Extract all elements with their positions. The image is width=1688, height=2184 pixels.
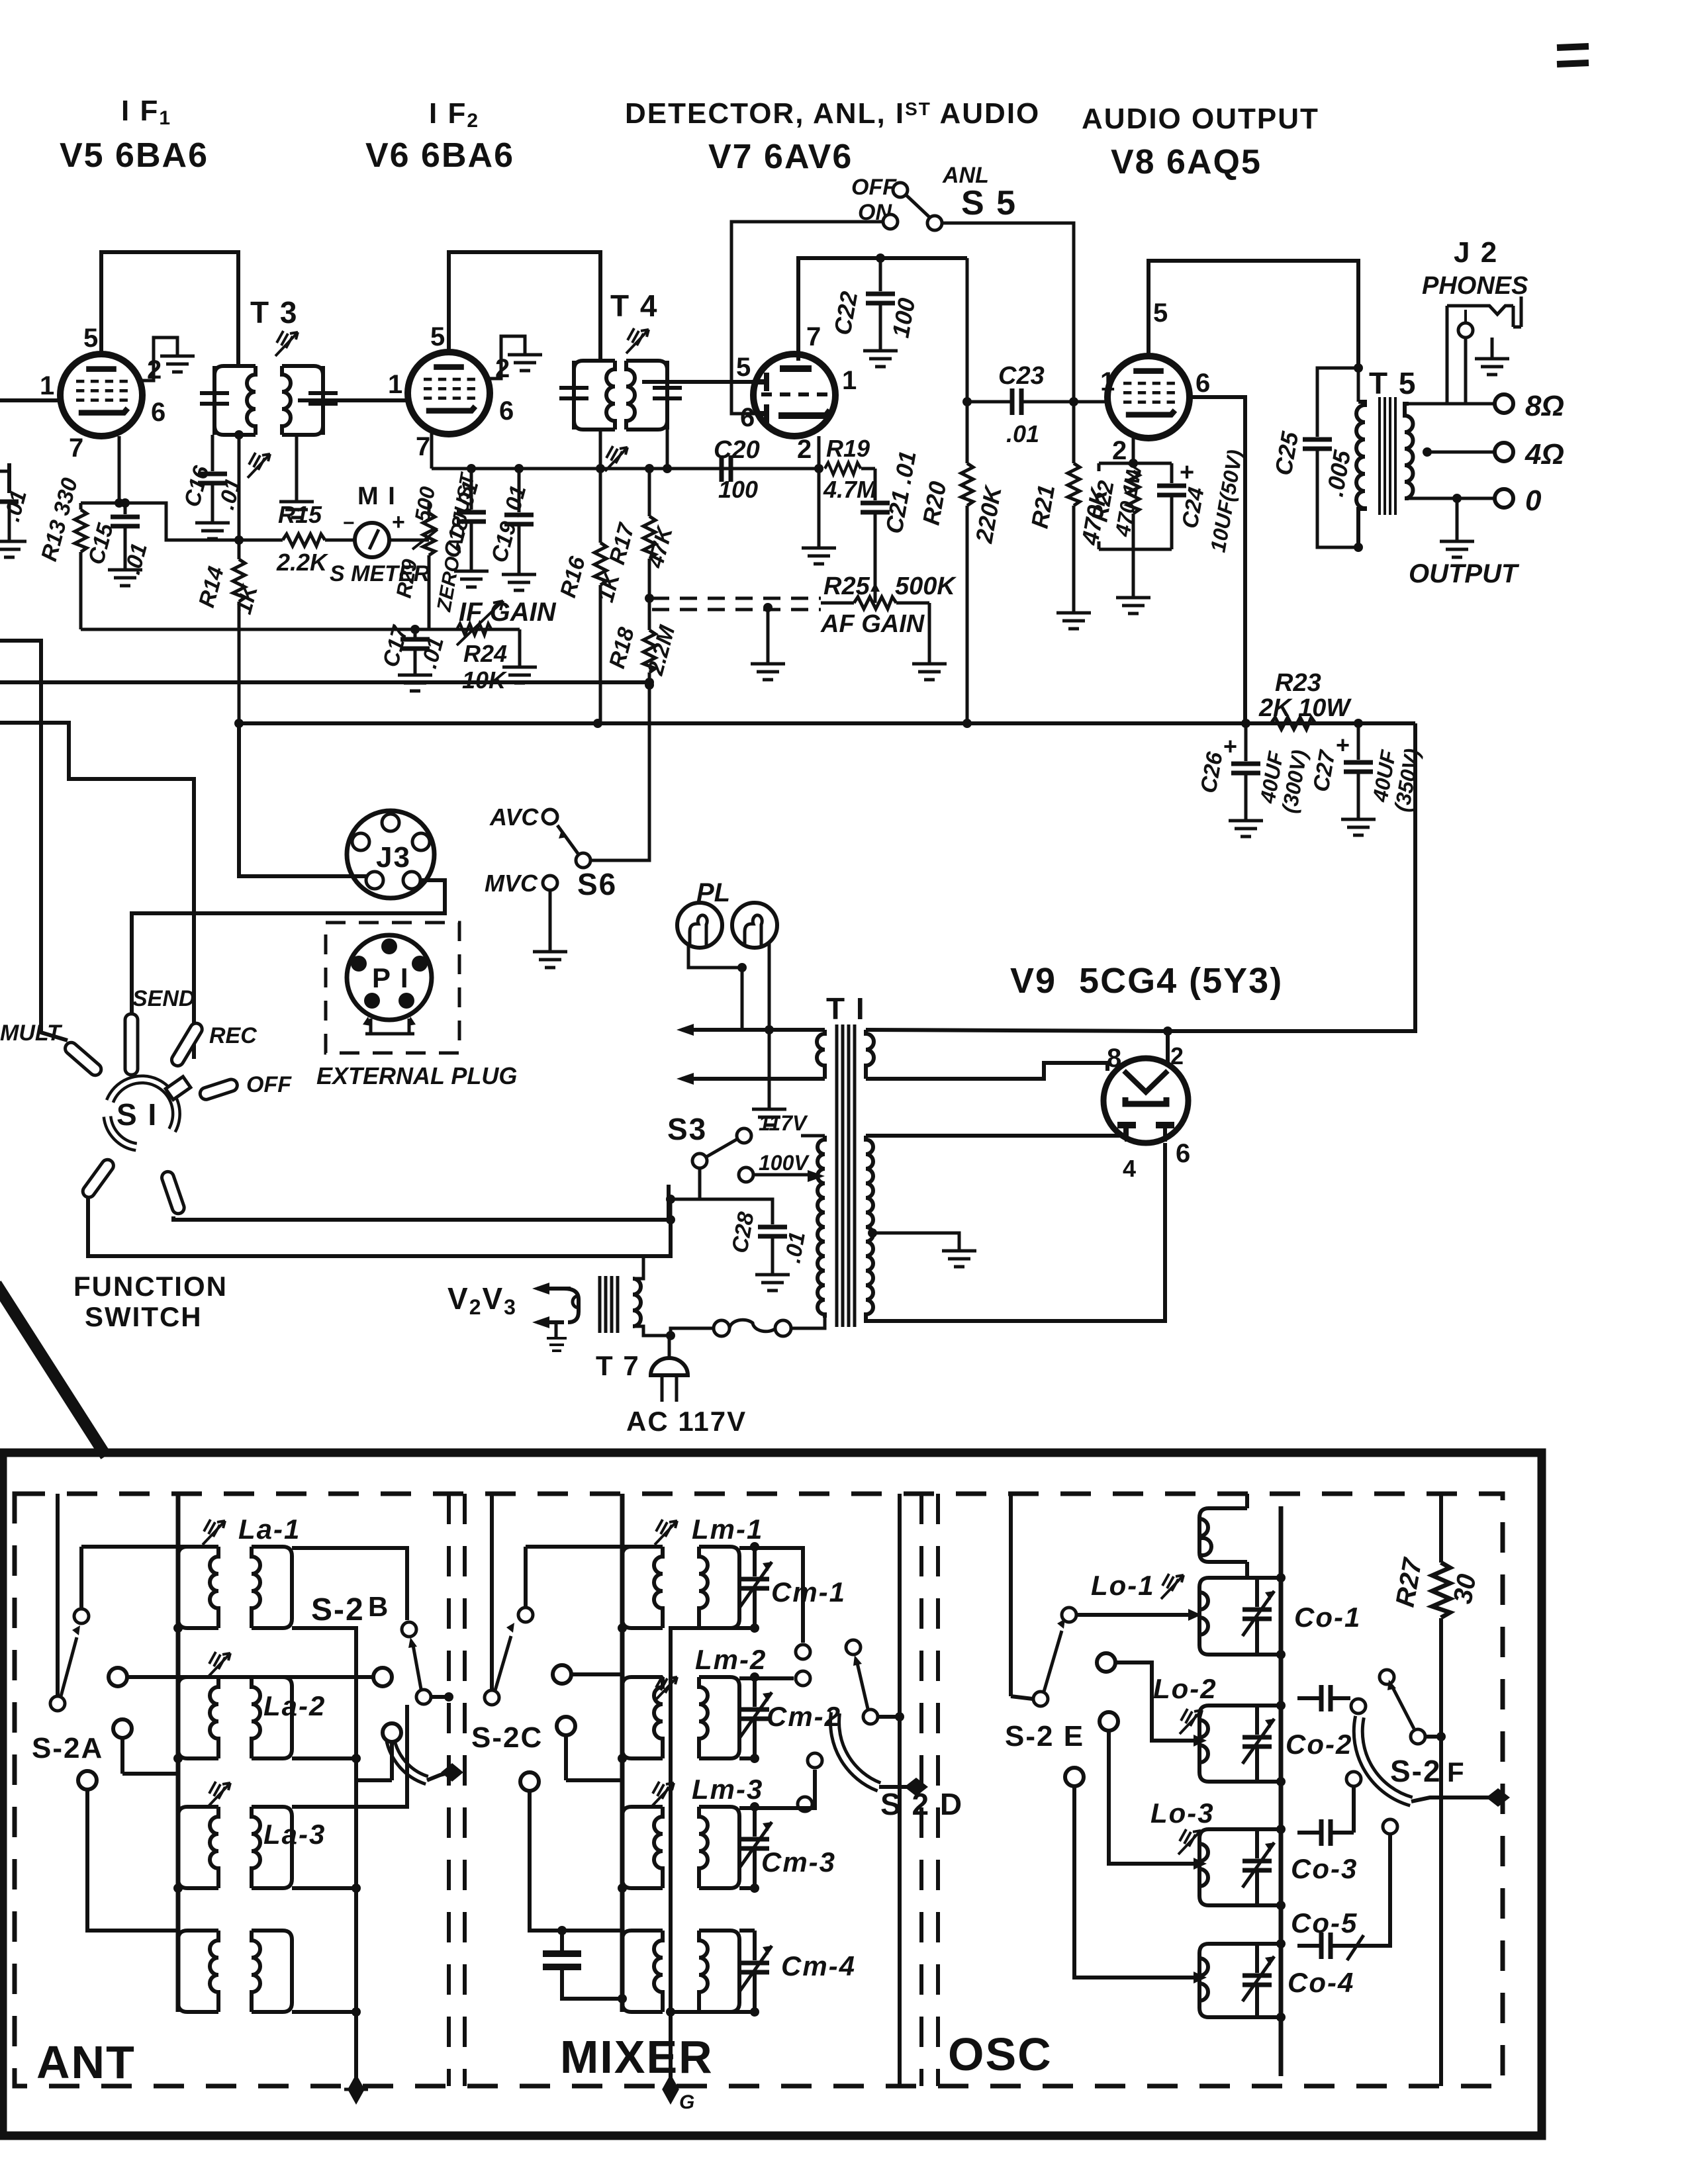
SEND paddle xyxy=(125,1014,138,1075)
svg-text:Co-4: Co-4 xyxy=(1288,1967,1354,1998)
svg-text:T 3: T 3 xyxy=(250,295,298,330)
switch S-2B xyxy=(311,1591,463,1782)
coil Lm-3 xyxy=(566,1770,815,1893)
svg-text:Co-1: Co-1 xyxy=(1294,1602,1361,1633)
wire T4 secondary to V7 pin5 xyxy=(642,380,760,384)
svg-text:S-2C: S-2C xyxy=(471,1721,543,1754)
trimmer Cm-3 xyxy=(739,1802,836,1893)
capacitor C25 .005 xyxy=(1270,363,1363,552)
resistor R15 2.2K xyxy=(239,501,355,576)
svg-text:OSC: OSC xyxy=(948,2028,1053,2080)
svg-text:5: 5 xyxy=(430,322,446,351)
svg-text:.01: .01 xyxy=(780,1230,810,1265)
svg-text:100: 100 xyxy=(718,476,758,503)
svg-text:OUTPUT: OUTPUT xyxy=(1409,559,1520,588)
svg-text:S 5: S 5 xyxy=(961,184,1017,222)
svg-text:+: + xyxy=(1180,459,1196,486)
svg-text:S-2A: S-2A xyxy=(32,1732,103,1764)
coil La-1 xyxy=(81,1514,407,2089)
wire V5 grid from left edge xyxy=(0,398,61,402)
svg-text:Cm-4: Cm-4 xyxy=(781,1950,856,1981)
B+ corner to V9 xyxy=(1168,723,1415,1031)
dashed grid xyxy=(761,392,835,396)
svg-text:2.2K: 2.2K xyxy=(276,549,329,576)
transformer T1 xyxy=(677,991,874,1327)
filament transformer T7 xyxy=(596,1256,675,1381)
svg-text:DETECTOR, ANL, IST AUDIO: DETECTOR, ANL, IST AUDIO xyxy=(625,97,1040,130)
core xyxy=(1380,397,1395,515)
svg-text:1: 1 xyxy=(842,366,858,395)
svg-text:4Ω: 4Ω xyxy=(1524,438,1564,471)
svg-text:6: 6 xyxy=(1196,369,1211,398)
trimmer Cm-2 xyxy=(739,1672,841,1763)
AC plug xyxy=(626,1336,747,1437)
svg-text:MIXER: MIXER xyxy=(560,2031,714,2083)
coil Lm-4 bottom with fixed cap xyxy=(530,1926,755,2012)
T4 xyxy=(559,289,682,471)
svg-text:R19: R19 xyxy=(826,435,870,462)
svg-text:4: 4 xyxy=(1123,1155,1137,1182)
MIXER right bus xyxy=(898,1494,902,2086)
T1 left top winding (6.3V) xyxy=(817,1030,825,1079)
wire V5 pin7 down xyxy=(81,436,239,540)
capacitor inside T4 secondary xyxy=(653,361,682,430)
rectifier tube V9 xyxy=(1103,1042,1192,1182)
wire J3 lower-right to SEND rail xyxy=(132,880,445,1014)
OSC right bus xyxy=(1279,1506,1284,2076)
svg-text:8Ω: 8Ω xyxy=(1525,390,1564,422)
svg-text:C23: C23 xyxy=(998,362,1045,390)
wire S5 pivot to right and down to C23 xyxy=(942,223,1074,402)
svg-text:T 5: T 5 xyxy=(1369,366,1417,400)
resistor R20 220K xyxy=(917,402,1008,723)
svg-text:V6 6BA6: V6 6BA6 xyxy=(365,136,514,175)
svg-text:100V: 100V xyxy=(759,1151,810,1175)
switch S-2C xyxy=(471,1494,543,1754)
trimmer top xyxy=(626,328,649,353)
svg-text:MULT: MULT xyxy=(0,1021,63,1046)
ANT output star xyxy=(344,2077,368,2101)
svg-text:MVC: MVC xyxy=(485,870,538,897)
svg-text:5: 5 xyxy=(83,324,99,353)
svg-text:ANT: ANT xyxy=(36,2036,136,2088)
svg-text:Lm-1: Lm-1 xyxy=(692,1514,763,1545)
T3 primary winding xyxy=(214,366,256,435)
tube V8 6AQ5 xyxy=(1100,298,1211,465)
capacitor C28 .01 xyxy=(700,1199,810,1291)
svg-text:30: 30 xyxy=(1448,1572,1482,1606)
svg-text:Co-3: Co-3 xyxy=(1291,1853,1358,1884)
svg-text:−: − xyxy=(343,512,356,534)
node V9 pin2 junction xyxy=(1163,1026,1172,1036)
wire V6 pin7 down to rail xyxy=(430,433,434,469)
svg-text:117V: 117V xyxy=(759,1111,808,1135)
svg-text:500K: 500K xyxy=(895,572,957,600)
fixed cap row Co-3 coupling xyxy=(1297,1772,1361,1846)
wire T1 HV bottom to V9 pin6 xyxy=(866,1143,1165,1321)
wire V8 plate top xyxy=(1149,261,1358,368)
svg-text:Cm-3: Cm-3 xyxy=(761,1846,836,1878)
resistor R14 1K xyxy=(194,430,263,723)
T3 secondary winding xyxy=(282,366,323,435)
svg-text:6: 6 xyxy=(499,396,515,426)
wire V5 pin2 screen to ground xyxy=(141,338,177,381)
OSC terminals xyxy=(1065,1653,1207,1983)
svg-text:PHONES: PHONES xyxy=(1422,272,1528,300)
svg-text:V5 6BA6: V5 6BA6 xyxy=(60,136,209,175)
output transformer T5 xyxy=(1356,366,1417,547)
svg-text:B: B xyxy=(368,1591,389,1622)
thick diagonal lead-in xyxy=(0,1284,106,1456)
coil La-3 xyxy=(173,1705,407,1893)
bus2 (B+) xyxy=(238,721,1415,725)
svg-text:7: 7 xyxy=(69,433,85,463)
lower-right paddle xyxy=(160,1170,186,1215)
top coupling coil xyxy=(1199,1494,1281,1578)
T5 primary xyxy=(1356,402,1365,547)
inner dashed border xyxy=(15,1494,1503,2086)
svg-text:T 7: T 7 xyxy=(596,1350,640,1381)
svg-text:C20: C20 xyxy=(714,436,760,464)
trimmer bottom xyxy=(605,446,628,471)
coil La-4 bottom xyxy=(178,1931,361,2017)
svg-text:La-3: La-3 xyxy=(263,1819,326,1850)
svg-text:REC: REC xyxy=(209,1023,257,1048)
svg-text:M I: M I xyxy=(357,482,397,510)
coil Lo-2 with Co-2 xyxy=(1153,1673,1352,1786)
dashed separator MIXER/OSC xyxy=(919,1494,923,2086)
coil Lo-1 with Co-1 xyxy=(1091,1570,1361,1659)
svg-text:AVC: AVC xyxy=(489,803,539,831)
capacitor C17 .01 xyxy=(378,622,449,691)
S5 switch ANL xyxy=(851,163,1017,230)
svg-text:SEND: SEND xyxy=(132,986,195,1011)
wire S1 lower-right paddle to S3 xyxy=(173,1185,669,1220)
svg-text:Lo-2: Lo-2 xyxy=(1153,1673,1217,1704)
capacitor C15 .01 xyxy=(83,498,152,577)
capacitor C20 100 xyxy=(714,436,760,503)
wire S1 lower-left paddle rail xyxy=(88,1196,671,1256)
wire T3 secondary bottom to ground xyxy=(295,435,299,490)
meter M1 S METER xyxy=(330,482,430,586)
dashed separator ANT/MIXER xyxy=(447,1494,451,2086)
trimmer Cm-4 xyxy=(666,1931,856,2017)
svg-text:S I: S I xyxy=(117,1097,158,1132)
svg-text:.01: .01 xyxy=(1006,420,1039,447)
wire T3 secondary to V6 grid xyxy=(298,398,408,402)
MIXER primary bus xyxy=(620,1494,625,2012)
svg-text:S-2: S-2 xyxy=(1390,1754,1442,1788)
fuse xyxy=(671,1318,825,1336)
wire bus to J3 lower-left pin xyxy=(239,723,368,876)
svg-text:S6: S6 xyxy=(577,867,617,901)
svg-text:6: 6 xyxy=(740,403,756,432)
svg-text:Co-2: Co-2 xyxy=(1286,1729,1352,1760)
svg-text:Lm-3: Lm-3 xyxy=(692,1774,763,1805)
wire REC feed from left edge xyxy=(0,723,194,1059)
IF GAIN pot R24 10K xyxy=(457,598,557,694)
capacitor C inside T3 primary xyxy=(200,366,229,435)
wire T1 5V winding top to B+ line xyxy=(866,1030,1168,1031)
ground (V6 screen) xyxy=(508,343,542,371)
fixed cap row Co-2 coupling xyxy=(1281,1685,1366,1713)
resistor R22 470 1W with C24 box xyxy=(1087,448,1247,614)
ANT primary bus xyxy=(176,1494,181,2012)
svg-text:V8 6AQ5: V8 6AQ5 xyxy=(1111,143,1262,181)
T3 xyxy=(200,295,338,478)
svg-text:4.7M: 4.7M xyxy=(823,476,877,503)
resistor R18 2.2M xyxy=(604,594,680,687)
socket J3 xyxy=(347,811,434,898)
trimmer Cm-1 xyxy=(671,1542,846,2089)
node R16 on B+ bus xyxy=(593,719,602,728)
lower-left paddle xyxy=(81,1158,116,1200)
pilot lamps PL xyxy=(677,878,777,1079)
node R14 on B+ bus xyxy=(234,719,244,728)
heater symbol V2V3 xyxy=(447,1281,579,1351)
wire V6 plate top to T4 xyxy=(449,252,600,361)
wire V5 plate top to T3 xyxy=(101,252,238,366)
coil Lm-1 xyxy=(526,1514,803,1643)
dashed bus left ground xyxy=(751,603,785,680)
rotor arc band lower-left xyxy=(107,1116,136,1147)
svg-text:OFF: OFF xyxy=(851,175,897,200)
wire V9 pin2 xyxy=(1166,1031,1170,1062)
wire V7 plate rail down C22 junction xyxy=(966,258,969,402)
svg-text:6: 6 xyxy=(1176,1139,1192,1168)
svg-text:R23: R23 xyxy=(1275,669,1321,697)
capacitor C19 .01 xyxy=(487,464,536,590)
ANT terminals xyxy=(78,1668,401,1931)
node R20 on B+ bus xyxy=(962,719,972,728)
svg-text:0: 0 xyxy=(1525,484,1542,517)
diode plates left xyxy=(755,373,767,423)
svg-text:R24: R24 xyxy=(463,640,507,667)
svg-text:IF GAIN: IF GAIN xyxy=(459,598,557,627)
trimmer Co-1 xyxy=(1255,1578,1259,1607)
capacitor inside T3 secondary xyxy=(308,366,338,435)
resistor R17 47K xyxy=(604,464,678,598)
svg-text:5: 5 xyxy=(736,353,752,382)
pot R25 500K AF GAIN xyxy=(820,572,957,680)
node AVC bus junction xyxy=(645,680,654,690)
ground T3 sec xyxy=(279,490,314,518)
T1 core xyxy=(837,1024,855,1327)
T4 secondary winding xyxy=(626,361,667,430)
T4 primary winding xyxy=(574,361,615,430)
output terminals xyxy=(1409,390,1564,588)
fixed capacitor xyxy=(557,1926,567,1935)
svg-text:SWITCH: SWITCH xyxy=(85,1301,203,1332)
plate bar top xyxy=(780,365,812,372)
T1 right top winding (5V) xyxy=(866,1030,874,1079)
heater lines with arrows xyxy=(682,1028,825,1032)
capacitor C16 .01 xyxy=(179,435,246,512)
wire V8 pin6 right and down xyxy=(1190,397,1245,723)
switch S-2E xyxy=(1005,1494,1201,1752)
svg-text:S 2 D: S 2 D xyxy=(880,1787,963,1821)
tube V5 6BA6 xyxy=(40,324,167,463)
ground under PL feed xyxy=(768,1079,771,1097)
trimmer bottom xyxy=(248,453,270,478)
svg-text:AF GAIN: AF GAIN xyxy=(820,610,925,638)
svg-text:Cm-2: Cm-2 xyxy=(767,1701,841,1732)
svg-text:T 4: T 4 xyxy=(610,289,658,323)
capacitor C21 .01 xyxy=(861,449,921,603)
OFF paddle xyxy=(199,1078,239,1101)
svg-text:Lo-3: Lo-3 xyxy=(1150,1797,1215,1829)
switch S-2D xyxy=(796,1640,963,1821)
svg-text:1: 1 xyxy=(1100,367,1116,396)
svg-text:T I: T I xyxy=(826,991,866,1026)
wire T7 top to rail xyxy=(643,1255,671,1258)
resistor R19 4.7M xyxy=(814,435,877,503)
svg-text:EXTERNAL PLUG: EXTERNAL PLUG xyxy=(316,1062,517,1089)
svg-text:J3: J3 xyxy=(376,841,411,874)
capacitor C18 .01 xyxy=(439,464,489,587)
capacitor C23 .01 xyxy=(962,362,1109,447)
svg-text:S-2 E: S-2 E xyxy=(1005,1720,1084,1752)
J2 phones jack xyxy=(1422,236,1528,404)
svg-text:2: 2 xyxy=(1112,436,1128,465)
svg-text:5: 5 xyxy=(1153,298,1169,328)
wire V8 pin2 down xyxy=(1132,437,1135,463)
resistor R16 1K xyxy=(555,430,626,723)
C24 electrolytic inside box xyxy=(1170,463,1174,483)
wire pin2 ground xyxy=(818,469,821,536)
node T4 secondary return xyxy=(663,464,672,473)
svg-text:10K: 10K xyxy=(462,666,508,694)
svg-text:La-1: La-1 xyxy=(238,1514,301,1545)
svg-text:7: 7 xyxy=(416,432,432,461)
svg-text:+: + xyxy=(392,510,406,535)
rotor key toward OFF xyxy=(165,1077,191,1100)
resistor R13 330 xyxy=(36,475,87,629)
MULT paddle xyxy=(63,1040,104,1078)
capacitor C26 40UF xyxy=(1196,723,1311,837)
switch S3 117V/100V xyxy=(666,1111,825,1224)
svg-text:S-2: S-2 xyxy=(311,1592,365,1627)
wire AVC vertical from R18 node down xyxy=(583,682,649,860)
ground (screen) xyxy=(160,344,195,372)
MIXER terminals xyxy=(520,1665,622,1931)
MIXER output star xyxy=(664,2077,677,2101)
svg-text:FUNCTION: FUNCTION xyxy=(73,1271,228,1302)
svg-text:AUDIO OUTPUT: AUDIO OUTPUT xyxy=(1082,103,1319,135)
rail under V5 xyxy=(81,628,520,631)
svg-text:2: 2 xyxy=(1170,1042,1185,1069)
wire S5 ON to V7 pin5 side xyxy=(731,222,883,414)
svg-text:Lm-2: Lm-2 xyxy=(695,1644,767,1675)
coil La-2 xyxy=(173,1652,361,1763)
svg-text:Cm-1: Cm-1 xyxy=(771,1576,846,1608)
wire V7 pin7 plate up and right xyxy=(798,258,967,361)
svg-text:1: 1 xyxy=(388,370,404,399)
tube V6 6BA6 xyxy=(388,322,515,461)
svg-text:V9 5CG4 (5Y3): V9 5CG4 (5Y3) xyxy=(1010,961,1283,1001)
wire T4 secondary bottom to rail xyxy=(666,430,669,469)
switch S-2F xyxy=(1358,1670,1510,1807)
svg-text:La-2: La-2 xyxy=(263,1690,326,1721)
capacitor inside T4 primary xyxy=(559,361,588,430)
resistor R29 500 ZERO ADJUST xyxy=(391,470,479,629)
wire T1 HV top to V9 pin4 xyxy=(866,1124,1125,1136)
svg-text:S3: S3 xyxy=(667,1112,707,1146)
AVC dashed bus xyxy=(652,598,821,610)
rotary switch S1 xyxy=(0,986,292,1215)
svg-text:J 2: J 2 xyxy=(1454,236,1498,269)
svg-text:AC 117V: AC 117V xyxy=(626,1406,747,1437)
resistor R23 2K 10W xyxy=(1241,669,1363,729)
resistor R27 30 xyxy=(1391,1494,1482,2086)
page number mark xyxy=(1557,46,1589,64)
wire V9 pin8 jog xyxy=(866,1063,1107,1079)
node V5 cathode junction xyxy=(115,498,124,508)
svg-text:7: 7 xyxy=(806,322,822,351)
left edge partial cap .01 xyxy=(0,463,32,557)
wire pin2 down / R19 junction xyxy=(818,436,821,469)
ground C15 xyxy=(108,558,142,586)
svg-text:6: 6 xyxy=(151,398,167,427)
wire T1 HV center tap to ground xyxy=(868,1228,976,1267)
tube V7 6AV6 xyxy=(736,322,858,464)
cathode xyxy=(778,410,830,416)
svg-text:2: 2 xyxy=(797,435,813,464)
svg-text:Co-5: Co-5 xyxy=(1291,1907,1358,1938)
switch S6 AVC/MVC xyxy=(485,803,650,968)
capacitor C22 100 xyxy=(829,222,921,367)
coil Lo-4 with Co-4 xyxy=(1199,1939,1354,2022)
coil Lo-3 with Co-3 xyxy=(1150,1797,1358,1910)
svg-text:OFF: OFF xyxy=(246,1072,292,1097)
svg-text:V7 6AV6: V7 6AV6 xyxy=(708,138,853,176)
svg-text:P I: P I xyxy=(372,962,410,993)
wire V6 pin2 screen to ground xyxy=(489,336,525,379)
REC paddle xyxy=(169,1021,205,1068)
fixed cap Co-5 xyxy=(1291,1819,1397,1960)
svg-text:2K 10W: 2K 10W xyxy=(1258,694,1352,722)
svg-text:G: G xyxy=(679,2091,694,2113)
T5 secondary xyxy=(1405,404,1413,498)
svg-text:F: F xyxy=(1447,1756,1466,1788)
coil Lm-2 xyxy=(618,1643,810,1763)
rail under V6 stage xyxy=(432,467,819,471)
bus1 (screen supply) xyxy=(0,680,649,684)
outer box xyxy=(3,1453,1542,2136)
svg-text:Lo-1: Lo-1 xyxy=(1091,1570,1155,1601)
plug P1 external xyxy=(316,923,517,1089)
svg-text:R15: R15 xyxy=(278,501,322,528)
T1 primary winding xyxy=(818,1136,825,1318)
svg-text:R25: R25 xyxy=(823,572,870,600)
trimmer top xyxy=(275,331,298,356)
resistor R21 470K xyxy=(1026,402,1113,629)
svg-text:1: 1 xyxy=(40,371,56,400)
ground C16 xyxy=(195,511,230,539)
capacitor C27 40UF xyxy=(1308,723,1424,835)
left edge feed wires xyxy=(0,641,68,1040)
switch S-2A xyxy=(32,1494,103,1764)
T1 HV secondary winding xyxy=(866,1136,873,1318)
rotor arc band upper xyxy=(110,1079,176,1130)
